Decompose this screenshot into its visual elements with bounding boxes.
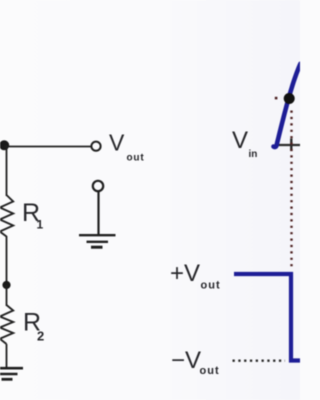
black dotted line (-Vout level) (233, 360, 286, 362)
label R1 (22, 199, 44, 232)
label R2 (23, 309, 44, 344)
label -Vout (171, 347, 220, 377)
sample dot on curve (284, 93, 295, 104)
resistor R1 (zigzag) (0, 195, 13, 237)
wire (R2 to ground) (6, 344, 8, 369)
svg-text:out: out (200, 365, 220, 377)
label Vout (109, 130, 144, 164)
wire (terminal to ground symbol) (97, 192, 99, 236)
red dot (horizontal projection remnant) (275, 97, 278, 100)
node A (junction dot top-left) (0, 140, 9, 150)
svg-text:−V: −V (171, 347, 201, 374)
tick (dotted line crossing axis) (290, 139, 292, 152)
wire (node A down to R1) (6, 145, 8, 196)
node B (junction dot between R1 and R2) (2, 281, 10, 289)
curve Vin (blue rising sine) (274, 64, 301, 147)
wire (node B to R2) (6, 285, 8, 306)
svg-text:V: V (232, 127, 248, 154)
terminal (open circle of reference ground) (93, 181, 103, 191)
svg-text:out: out (127, 152, 145, 163)
svg-text:V: V (109, 130, 125, 156)
svg-text:2: 2 (37, 329, 44, 344)
terminal Vout (open circle) (91, 142, 100, 151)
ground (bottom of R2) (0, 368, 23, 379)
axis Vin (horizontal line) (276, 144, 301, 146)
label +Vout (170, 260, 221, 292)
svg-text:in: in (249, 149, 258, 160)
label Vin (232, 127, 257, 160)
svg-text:+V: +V (170, 260, 200, 287)
red dotted projection line (vertical) (290, 111, 292, 269)
wire (R1 to node B) (6, 236, 8, 286)
waveform Vout (blue step) (234, 274, 301, 361)
svg-text:1: 1 (37, 218, 44, 232)
ground (reference) (79, 235, 116, 247)
svg-text:out: out (201, 280, 221, 292)
resistor R2 (zigzag) (0, 305, 13, 344)
wire (horizontal to Vout terminal) (4, 146, 91, 148)
